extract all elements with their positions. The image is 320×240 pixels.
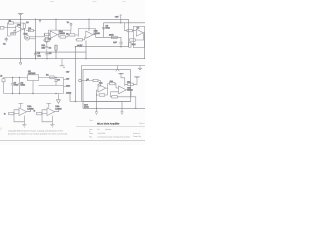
svg-text:C1: C1 xyxy=(3,43,6,46)
power bar 1 xyxy=(118,73,125,86)
wire vertical V14 xyxy=(69,94,71,102)
wire psu top xyxy=(4,77,64,79)
gnd arrow 2 xyxy=(121,112,124,115)
op-amp A2 xyxy=(136,29,143,36)
node v5 xyxy=(85,58,86,59)
resistor R21 xyxy=(37,112,42,114)
power bar 2 xyxy=(125,77,140,85)
svg-text:U2A: U2A xyxy=(17,23,22,26)
node top rail / V6 xyxy=(88,19,89,20)
resistor R20 xyxy=(9,112,14,114)
line bottom border xyxy=(0,139,145,141)
tick vcc xyxy=(120,15,122,19)
microphone MK1 xyxy=(25,36,30,41)
wire U1A out xyxy=(58,35,60,37)
capacitor C1 left xyxy=(5,37,8,42)
wire net half supply xyxy=(76,46,129,48)
wire A4 out corner xyxy=(126,90,136,108)
wire mic top xyxy=(30,36,45,38)
wire mid left xyxy=(36,51,87,53)
op-amp A1 xyxy=(16,26,23,33)
wire psu left xyxy=(3,78,5,94)
wire A3 feedback xyxy=(97,88,108,95)
svg-text:R5: R5 xyxy=(66,33,68,36)
wire U3A out xyxy=(27,110,31,112)
resistor R5 xyxy=(28,29,33,31)
wire vertical V8 stub xyxy=(120,19,122,23)
svg-text:R: R xyxy=(4,112,6,115)
svg-text:Copyright 2005 Brads Hot Music: Copyright 2005 Brads Hot Musics. Copying… xyxy=(8,130,63,133)
wire vertical V3b xyxy=(55,45,57,59)
wire P2 out xyxy=(81,81,100,87)
svg-text:Rev 1.0: Rev 1.0 xyxy=(140,122,146,125)
svg-text:U2A: U2A xyxy=(99,82,103,85)
svg-text:10n: 10n xyxy=(37,54,40,57)
svg-text:C9: C9 xyxy=(57,78,60,81)
node arrow1 bus xyxy=(96,108,97,109)
wire U1B out xyxy=(93,29,96,38)
svg-text:C:\Documents and Settings\Amp.: C:\Documents and Settings\Amp.SchDoc xyxy=(97,136,130,139)
power tap at top xyxy=(18,14,41,23)
line title top xyxy=(76,126,145,128)
wire output down xyxy=(23,29,25,38)
wire vertical V12 xyxy=(82,102,84,109)
gnd arrow 1 xyxy=(95,112,98,115)
resistor R13 xyxy=(111,36,117,38)
resistor R18b xyxy=(99,94,105,96)
wire psu bottom xyxy=(4,93,64,95)
wire vertical V3 xyxy=(55,19,57,30)
svg-text:Date:: Date: xyxy=(89,132,94,135)
wire vertical V5 xyxy=(85,41,87,59)
wire vertical V10 right edge xyxy=(144,33,146,59)
port IN xyxy=(1,26,5,29)
junction dots xyxy=(12,19,137,109)
svg-text:LM358: LM358 xyxy=(59,32,66,35)
op-amp U3B xyxy=(47,108,55,116)
svg-text:R3: R3 xyxy=(26,21,28,24)
svg-text:JACK: JACK xyxy=(84,105,89,108)
svg-text:+5V: +5V xyxy=(66,78,70,81)
resistor R9 xyxy=(60,36,66,38)
wire vertical V7 xyxy=(103,23,105,38)
wire vertical V1 left xyxy=(20,14,22,62)
capacitor CP3 xyxy=(54,78,57,86)
svg-text:GND: GND xyxy=(66,85,71,88)
ground U3A xyxy=(22,122,26,127)
svg-text:+9V: +9V xyxy=(115,16,119,19)
wire U1B feedback xyxy=(76,29,85,40)
svg-text:Micro Mole Amplifier: Micro Mole Amplifier xyxy=(97,123,120,126)
svg-text:D1: D1 xyxy=(46,73,49,76)
resistor R20 xyxy=(93,79,98,81)
wire A4 feedback xyxy=(111,92,131,97)
wire R6 up xyxy=(46,36,48,38)
svg-text:R: R xyxy=(34,110,36,113)
node v4 bus xyxy=(75,101,76,102)
resistor R19b xyxy=(110,82,116,84)
node psu caps xyxy=(12,77,13,78)
node rail2 / stub xyxy=(120,22,121,23)
svg-text:Title: Title xyxy=(89,119,92,122)
resistor R2 xyxy=(23,24,25,29)
svg-text:+4.5V: +4.5V xyxy=(77,44,83,47)
svg-text:LM7805: LM7805 xyxy=(28,72,36,75)
resistor R1 xyxy=(9,22,14,24)
svg-text:V+: V+ xyxy=(67,21,70,24)
capacitor C4 xyxy=(45,47,48,48)
resistor R12 xyxy=(77,39,83,41)
diode D1 xyxy=(50,76,54,79)
svg-text:2/10/2006: 2/10/2006 xyxy=(97,132,105,135)
wire R2 to R5 xyxy=(24,28,31,30)
port P2 xyxy=(79,79,82,82)
wire vertical gnd arrow2 xyxy=(121,102,123,112)
svg-text:R16: R16 xyxy=(132,43,137,46)
wire U1A minus in xyxy=(43,38,50,40)
wire R10 to U1B xyxy=(75,32,79,36)
svg-text:AGND: AGND xyxy=(66,91,72,94)
wire mid rail full width xyxy=(0,58,145,60)
resistor RC10 xyxy=(128,83,134,85)
svg-text:100n: 100n xyxy=(21,84,25,87)
capacitor C2 xyxy=(34,52,37,59)
resistor R16 vertical xyxy=(129,42,131,47)
op-amp U1B xyxy=(86,31,93,38)
capacitor CP2 xyxy=(18,78,21,94)
box U1B top xyxy=(78,28,95,30)
wire vertical V8 cap branch xyxy=(120,37,122,46)
svg-text:LM358: LM358 xyxy=(55,107,62,110)
svg-text:+9V: +9V xyxy=(66,71,70,74)
wire U3B inputs xyxy=(42,110,47,114)
capacitor C3 xyxy=(45,52,48,59)
node top rail / V2 xyxy=(35,19,36,20)
ground middle xyxy=(60,59,66,68)
svg-text:A4: A4 xyxy=(97,128,99,131)
gnd chassis mid xyxy=(116,66,120,72)
box A2 xyxy=(134,26,145,47)
svg-text:10k: 10k xyxy=(42,46,45,49)
wire A4 minus xyxy=(116,87,119,89)
resistor R10 xyxy=(70,34,75,36)
resistor R18 xyxy=(112,96,118,98)
port J1 xyxy=(2,79,5,82)
wire A3 out xyxy=(108,84,116,89)
wire A2 out xyxy=(143,32,144,34)
wire U1A loop top xyxy=(49,30,71,39)
svg-text:C4: C4 xyxy=(49,47,52,50)
ground psu xyxy=(56,94,60,104)
wire psu right edge xyxy=(63,78,65,94)
svg-text:File:: File: xyxy=(89,136,93,139)
port down left xyxy=(20,62,22,64)
svg-text:MK1: MK1 xyxy=(24,33,29,36)
resistor R11 vertical xyxy=(55,45,57,50)
wire tap stubs xyxy=(64,80,67,87)
page header marks xyxy=(50,1,126,3)
resistor R7 xyxy=(44,33,50,35)
power stub top mid xyxy=(39,19,41,22)
node c3 xyxy=(46,58,47,59)
node v1 mid xyxy=(20,58,21,59)
wire mic bottom xyxy=(30,38,36,40)
wire vertical V6 xyxy=(88,19,90,31)
capacitor CP1 xyxy=(11,78,14,94)
wire bottom bus 2 xyxy=(83,107,145,109)
wire vertical V4 xyxy=(75,47,77,102)
node v3 52 xyxy=(55,51,56,52)
node top rail / V3 xyxy=(55,19,56,20)
page edge mark xyxy=(0,128,2,131)
ground right under rail xyxy=(138,66,142,72)
wire U5 gnd xyxy=(32,81,34,94)
node P2 wire xyxy=(86,80,87,81)
wire A3 plus xyxy=(97,89,99,91)
wire vertical V13 outer box left xyxy=(81,66,83,102)
svg-text:200k: 200k xyxy=(109,34,113,37)
op-amp A4 xyxy=(119,86,127,94)
capacitor C6 plates xyxy=(119,42,122,44)
svg-text:100n: 100n xyxy=(105,27,109,30)
wire U1A plus in xyxy=(44,34,50,36)
wire A2 feedback xyxy=(130,33,144,40)
wire vertical V2 xyxy=(35,19,37,58)
power bar V1 top xyxy=(18,14,24,15)
svg-text:Sheet of: Sheet of xyxy=(133,132,140,135)
svg-text:R11: R11 xyxy=(110,80,113,83)
node v17 bus xyxy=(135,108,136,109)
wire signal stage2 out xyxy=(96,36,122,38)
svg-text:Number:: Number: xyxy=(105,128,112,131)
wire feedback top xyxy=(8,23,25,36)
svg-text:1nF: 1nF xyxy=(113,41,117,44)
svg-text:LM358: LM358 xyxy=(94,32,101,35)
power bar U3B xyxy=(46,103,51,107)
svg-text:470u: 470u xyxy=(14,84,18,87)
svg-text:U4: U4 xyxy=(137,27,140,30)
op-amp A3 xyxy=(98,84,106,92)
svg-text:Drawn By:: Drawn By: xyxy=(133,135,142,138)
resistor R8 xyxy=(44,39,50,41)
wire top rail xyxy=(0,18,129,20)
resistor R4 xyxy=(11,33,16,35)
regulator U5 xyxy=(28,75,39,81)
wire bottom bus 1 xyxy=(70,101,131,103)
wire input xyxy=(5,27,16,29)
wire vertical gnd arrow1 xyxy=(96,90,98,112)
wire U3A loop xyxy=(14,110,24,122)
capacitor C5 on V7 xyxy=(102,27,105,28)
svg-text:J1: J1 xyxy=(0,75,3,78)
wire U3B out xyxy=(55,110,59,112)
power tap arrow xyxy=(70,25,72,30)
wire R6 down to cap xyxy=(46,42,48,52)
op-amp U1A xyxy=(50,31,57,38)
wire vcc rail 2 xyxy=(104,22,146,24)
node cap c6 xyxy=(120,46,121,47)
wire R11 tail xyxy=(55,50,57,52)
resistor R14 xyxy=(127,30,132,32)
svg-text:document is permitted in any m: document is permitted in any medium prov… xyxy=(8,132,68,135)
wire U3B loop xyxy=(42,110,52,122)
resistor R15 xyxy=(130,39,136,41)
node mic junction xyxy=(35,51,36,52)
wire R9 out xyxy=(66,35,70,37)
ground U3B xyxy=(50,122,54,127)
wire U3A inputs xyxy=(14,110,19,114)
node half supply xyxy=(75,46,76,47)
svg-text:C10: C10 xyxy=(127,81,130,84)
wire R5 to V2 xyxy=(33,30,35,32)
svg-text:C3: C3 xyxy=(49,52,52,55)
node top rail / V1 xyxy=(20,19,21,20)
wire minus input loop xyxy=(8,30,16,36)
wire lower rail xyxy=(82,65,146,67)
power bar U3A xyxy=(18,103,23,107)
node fb plus xyxy=(96,94,97,95)
box bottom right block xyxy=(83,70,131,102)
op-amp U3A xyxy=(19,108,27,116)
wire vertical V9 right corner xyxy=(128,19,130,46)
node v2 mid xyxy=(35,58,36,59)
wire psu mid rail xyxy=(39,85,64,87)
resistor R6 vertical xyxy=(46,37,48,42)
wire in xyxy=(125,23,137,31)
